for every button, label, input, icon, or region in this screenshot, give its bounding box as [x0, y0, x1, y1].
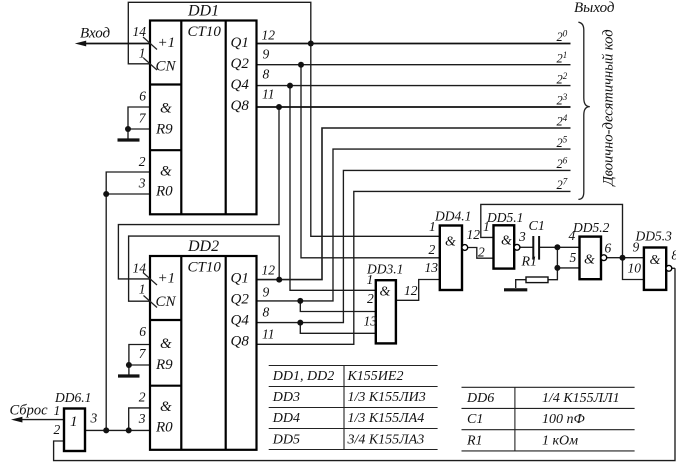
svg-text:1: 1	[139, 46, 146, 61]
svg-text:2: 2	[139, 154, 146, 169]
svg-text:3: 3	[90, 411, 98, 426]
svg-text:Q2: Q2	[231, 292, 250, 308]
svg-text:R1: R1	[466, 434, 483, 449]
svg-text:R1: R1	[521, 255, 538, 270]
svg-text:DD1: DD1	[187, 3, 219, 20]
svg-text:1: 1	[54, 403, 61, 418]
svg-text:12: 12	[262, 263, 276, 278]
svg-text:Q4: Q4	[231, 313, 250, 329]
svg-text:R9: R9	[155, 122, 173, 138]
svg-text:2: 2	[367, 291, 374, 306]
svg-text:Выход: Выход	[574, 0, 615, 16]
svg-text:1/3 К155ЛА4: 1/3 К155ЛА4	[348, 411, 425, 426]
svg-text:Вход: Вход	[80, 26, 111, 42]
svg-text:10: 10	[628, 260, 642, 275]
svg-text:&: &	[650, 253, 661, 268]
svg-text:14: 14	[133, 24, 147, 39]
svg-text:14: 14	[133, 261, 147, 276]
svg-text:Двоично-десятичный код: Двоично-десятичный код	[601, 29, 617, 187]
svg-text:3: 3	[138, 176, 146, 191]
svg-text:DD2: DD2	[187, 238, 219, 255]
svg-text:9: 9	[263, 284, 270, 299]
svg-text:+1: +1	[158, 35, 176, 51]
svg-text:8: 8	[263, 304, 270, 319]
svg-text:DD5.2: DD5.2	[572, 220, 610, 235]
svg-text:Q8: Q8	[231, 98, 250, 114]
svg-text:13: 13	[364, 313, 378, 328]
svg-text:R9: R9	[155, 357, 173, 373]
svg-text:1: 1	[367, 272, 374, 287]
svg-text:2: 2	[429, 242, 436, 257]
svg-text:&: &	[160, 164, 172, 180]
svg-text:1: 1	[483, 219, 490, 234]
svg-text:Q2: Q2	[231, 56, 250, 72]
svg-text:+1: +1	[158, 271, 176, 287]
svg-text:DD5.1: DD5.1	[486, 210, 523, 225]
svg-text:&: &	[501, 234, 512, 249]
svg-text:Q4: Q4	[231, 77, 250, 93]
svg-text:12: 12	[404, 283, 418, 298]
svg-text:DD5: DD5	[272, 432, 300, 447]
svg-text:1/4 К155ЛЛ1: 1/4 К155ЛЛ1	[542, 391, 620, 406]
svg-text:DD5.3: DD5.3	[635, 229, 673, 244]
svg-text:3/4 К155ЛА3: 3/4 К155ЛА3	[347, 432, 425, 447]
svg-text:&: &	[160, 336, 172, 352]
svg-text:&: &	[160, 399, 172, 415]
svg-text:CT10: CT10	[188, 24, 222, 40]
svg-text:1 кОм: 1 кОм	[542, 434, 578, 449]
svg-text:9: 9	[633, 240, 640, 255]
svg-text:6: 6	[605, 241, 612, 256]
svg-text:11: 11	[262, 326, 275, 341]
svg-text:8: 8	[672, 248, 676, 263]
svg-text:3: 3	[138, 411, 146, 426]
svg-text:CN: CN	[156, 59, 177, 75]
svg-text:Q1: Q1	[231, 271, 249, 287]
svg-text:12: 12	[467, 227, 481, 242]
svg-text:12: 12	[262, 27, 276, 42]
svg-text:CT10: CT10	[188, 260, 222, 276]
svg-text:9: 9	[263, 47, 270, 62]
svg-text:6: 6	[139, 324, 146, 339]
svg-text:1: 1	[429, 219, 436, 234]
svg-text:&: &	[160, 100, 172, 116]
svg-text:&: &	[584, 253, 595, 268]
svg-text:C1: C1	[467, 412, 483, 427]
svg-text:5: 5	[570, 250, 577, 265]
svg-text:DD1, DD2: DD1, DD2	[272, 369, 334, 384]
svg-text:8: 8	[263, 67, 270, 82]
svg-text:3: 3	[518, 229, 526, 244]
svg-text:Q8: Q8	[231, 334, 250, 350]
svg-text:R0: R0	[155, 420, 173, 436]
svg-text:2: 2	[54, 422, 61, 437]
svg-text:DD4.1: DD4.1	[434, 209, 471, 224]
svg-text:К155ИЕ2: К155ИЕ2	[347, 369, 404, 384]
svg-text:13: 13	[425, 260, 439, 275]
svg-text:1/3 К155ЛИ3: 1/3 К155ЛИ3	[348, 390, 426, 405]
svg-text:2: 2	[139, 390, 146, 405]
svg-text:C1: C1	[529, 219, 545, 234]
svg-text:DD4: DD4	[272, 411, 300, 426]
svg-text:R0: R0	[155, 184, 173, 200]
svg-text:11: 11	[262, 87, 275, 102]
svg-text:DD3: DD3	[272, 390, 300, 405]
svg-text:&: &	[445, 235, 456, 250]
svg-text:Сброс: Сброс	[10, 403, 49, 419]
svg-text:Q1: Q1	[231, 35, 249, 51]
svg-text:2: 2	[478, 245, 485, 260]
svg-text:CN: CN	[156, 294, 177, 310]
svg-text:4: 4	[569, 228, 576, 243]
svg-text:100 пФ: 100 пФ	[542, 412, 585, 427]
svg-text:&: &	[380, 285, 391, 300]
svg-text:6: 6	[139, 89, 146, 104]
svg-text:1: 1	[70, 414, 78, 430]
svg-text:DD6: DD6	[466, 391, 494, 406]
svg-text:1: 1	[139, 282, 146, 297]
